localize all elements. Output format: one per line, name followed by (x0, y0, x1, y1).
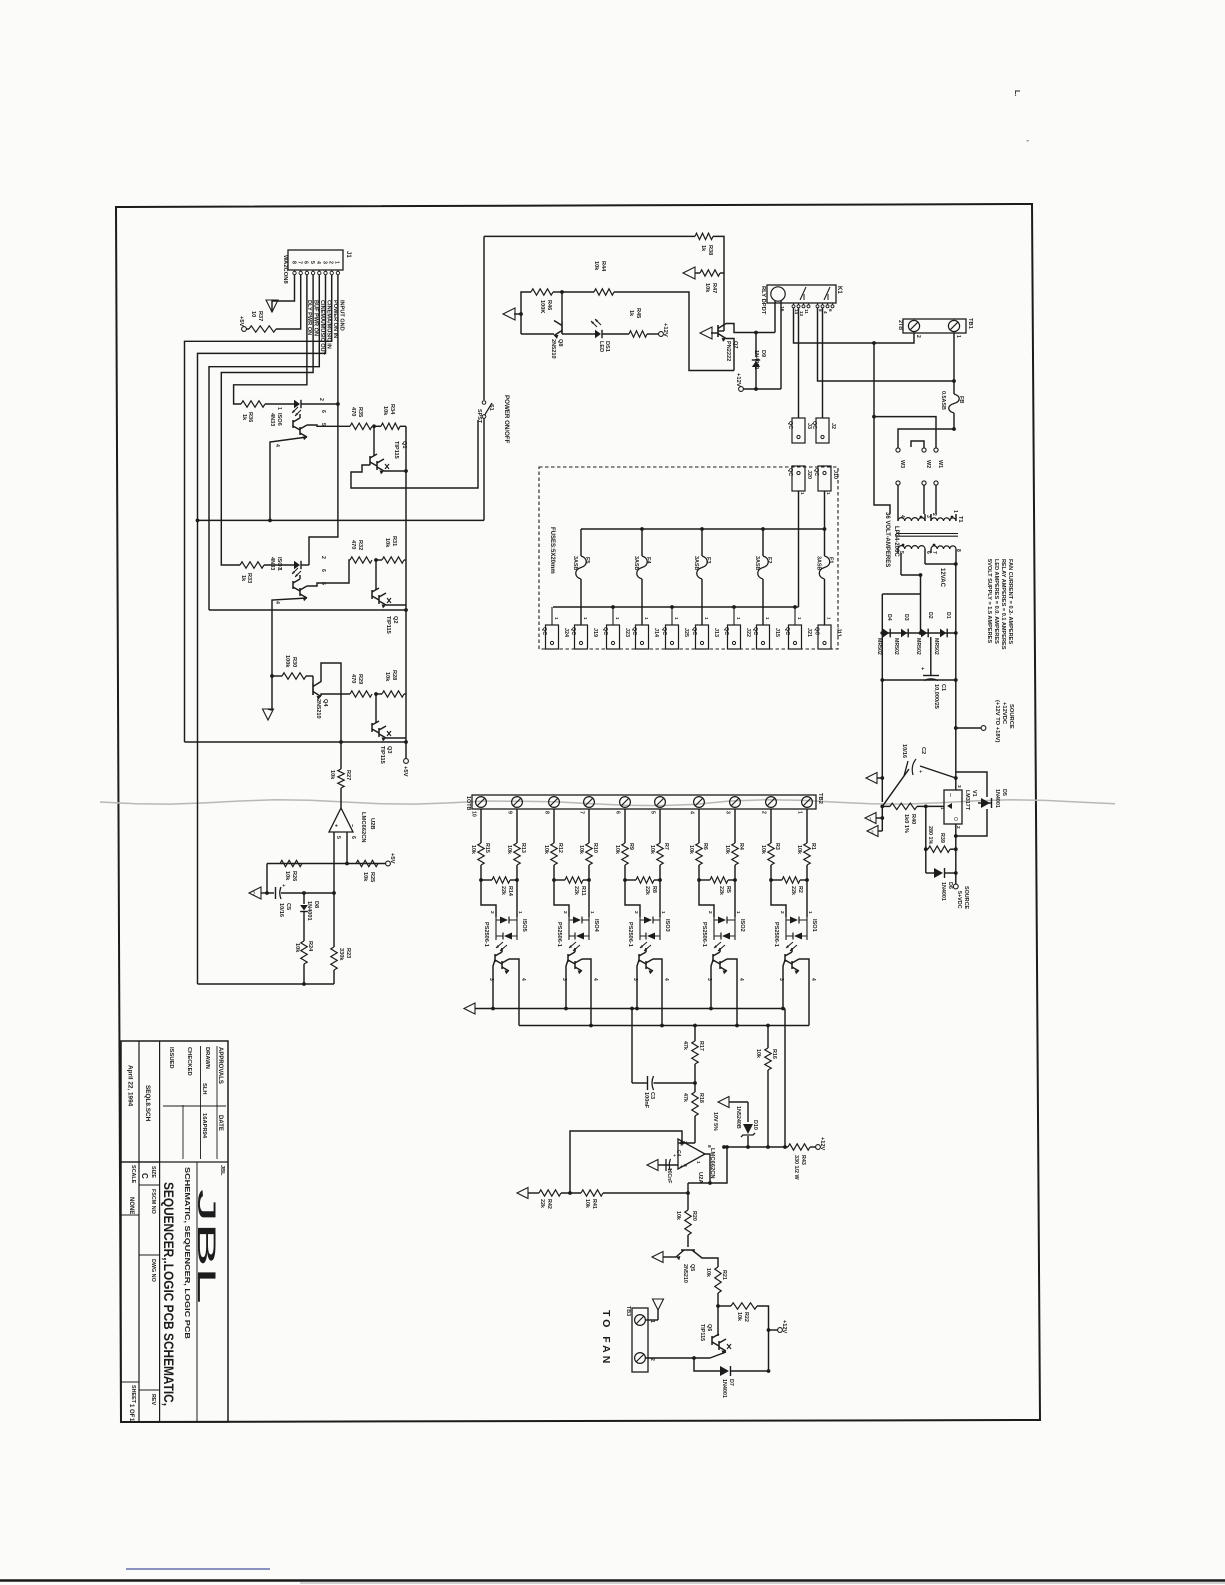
faint specks top right (1013, 90, 1028, 142)
wire Q7 collector (726, 324, 775, 335)
svg-text:5: 5 (335, 836, 341, 839)
svg-text:1: 1 (955, 335, 961, 338)
svg-text:6: 6 (925, 551, 931, 554)
svg-text:10k: 10k (688, 845, 694, 854)
wire collector bus (519, 1024, 809, 1028)
resistor R39 (924, 806, 956, 873)
wire Q1 collector loop to S1 (351, 420, 478, 488)
wire U2A output (688, 1145, 729, 1185)
transistor Q3 (372, 694, 392, 764)
svg-text:16: 16 (779, 306, 785, 312)
resistor R42 (539, 1190, 581, 1209)
svg-text:100K: 100K (539, 300, 545, 313)
svg-text:10k: 10k (736, 1312, 742, 1321)
connector J21 (784, 607, 812, 649)
wire Q3 emitter (386, 738, 408, 744)
svg-text:10k: 10k (704, 283, 710, 293)
svg-text:V1: V1 (971, 790, 977, 797)
svg-text:R40: R40 (910, 814, 916, 824)
svg-text:4: 4 (810, 978, 816, 981)
svg-text:R10: R10 (592, 843, 598, 853)
svg-text:+12V: +12V (781, 1320, 787, 1333)
svg-text:1 OF: 1 OF (128, 1404, 134, 1418)
svg-text:+: + (917, 770, 923, 773)
svg-text:C3: C3 (649, 1092, 655, 1099)
svg-text:J25: J25 (683, 628, 689, 637)
svg-text:6: 6 (615, 811, 621, 814)
scan artifact gray streak (100, 800, 1115, 806)
svg-text:3: 3 (632, 978, 638, 981)
svg-text:TIP115: TIP115 (379, 746, 385, 764)
svg-text:R3: R3 (774, 843, 780, 850)
svg-text:1: 1 (799, 492, 805, 495)
wire C3 feed (630, 1007, 634, 1083)
svg-text:1k: 1k (628, 310, 634, 317)
svg-text:Q6: Q6 (706, 1324, 712, 1331)
svg-text:R38: R38 (707, 245, 713, 255)
resistor R2 (769, 877, 809, 895)
svg-text:100k: 100k (284, 655, 290, 668)
svg-text:10k: 10k (724, 845, 730, 854)
svg-text:QC: QC (691, 627, 697, 635)
wire R41 to R20 (687, 1183, 689, 1210)
svg-text:U2B: U2B (369, 818, 375, 830)
svg-text:ISO4: ISO4 (593, 919, 599, 933)
wire Q1 emitter to +5 rail (384, 469, 408, 473)
svg-text:6: 6 (320, 410, 326, 413)
svg-text:SOURCE: SOURCE (963, 886, 969, 909)
+12V terminal node (735, 373, 781, 391)
svg-text:9: 9 (507, 811, 513, 814)
svg-text:QC: QC (661, 627, 667, 635)
svg-text:22k: 22k (539, 1199, 545, 1208)
svg-text:1N4001: 1N4001 (721, 1379, 727, 1398)
wire Q4 collector to R27 node (321, 663, 341, 742)
wire Q7 emitter (726, 339, 734, 371)
svg-text:2: 2 (871, 830, 874, 835)
svg-text:FB: FB (958, 396, 964, 403)
resistor R27 (329, 742, 351, 808)
svg-text:1: 1 (939, 807, 945, 810)
svg-text:2TB: 2TB (897, 320, 903, 330)
svg-text:Q3: Q3 (386, 746, 392, 753)
svg-text:1N4001: 1N4001 (940, 882, 946, 901)
svg-text:1: 1 (644, 617, 649, 620)
svg-text:10k: 10k (796, 845, 802, 854)
diode D2 (915, 612, 933, 655)
svg-text:FAN CURRENT = 0.2- AMPERES: FAN CURRENT = 0.2- AMPERES (1007, 559, 1013, 644)
resistor R18 (682, 1083, 704, 1143)
svg-text:R20: R20 (691, 1211, 697, 1221)
svg-text:22k: 22k (500, 886, 506, 895)
label 36 VOLT-AMPERES (884, 512, 890, 567)
svg-text:R15: R15 (484, 843, 490, 853)
wire long rail y610 (209, 609, 406, 611)
svg-text:36 VOLT-AMPERES: 36 VOLT-AMPERES (884, 512, 890, 567)
svg-text:R45: R45 (635, 308, 641, 318)
svg-text:LMC662CN: LMC662CN (360, 812, 366, 843)
ground flag U2A (647, 1160, 660, 1171)
svg-text:6: 6 (828, 309, 833, 312)
wire R47 node to Q7 base (718, 273, 724, 331)
svg-text:+5V: +5V (402, 766, 408, 777)
svg-text:R36: R36 (247, 412, 253, 422)
optocoupler ISO2 LED pair (699, 880, 745, 951)
svg-text:MR502: MR502 (876, 638, 882, 655)
svg-text:C1: C1 (940, 684, 946, 691)
optocoupler ISO5 phototransistor (488, 948, 526, 1026)
svg-text:S1: S1 (488, 404, 494, 411)
node R35-R34 junction (372, 424, 376, 428)
svg-text:J1: J1 (345, 251, 351, 258)
svg-text:5: 5 (650, 811, 656, 814)
op-amp U2B (329, 808, 375, 843)
svg-text:3ASB: 3ASB (693, 556, 699, 570)
svg-text:D1: D1 (945, 612, 951, 619)
svg-text:10k: 10k (543, 845, 549, 854)
resistor R22 (718, 1303, 770, 1373)
svg-text:SOURCE: SOURCE (1008, 704, 1014, 729)
svg-text:22k: 22k (718, 886, 724, 895)
svg-text:3: 3 (321, 261, 327, 264)
svg-text:+12V: +12V (735, 373, 741, 387)
capacitor C3 (632, 1076, 695, 1109)
resistor R45 (602, 308, 659, 337)
wire secondary pin8 (925, 553, 958, 566)
svg-text:SPST: SPST (476, 409, 482, 424)
wire relay contact to TB1-1 (818, 308, 956, 383)
op-amp U2A (678, 1139, 715, 1184)
optocoupler ISO4 phototransistor (561, 948, 598, 1026)
transformer T1 secondary (898, 544, 961, 554)
svg-text:470: 470 (350, 407, 356, 416)
svg-text:R44: R44 (600, 261, 606, 272)
svg-text:10k: 10k (675, 1211, 681, 1220)
connector J25 (661, 607, 689, 649)
svg-text:D7: D7 (728, 1379, 734, 1386)
optocoupler ISO7 phototransistor (274, 569, 326, 604)
svg-text:APPROVALS: APPROVALS (217, 1047, 223, 1084)
svg-text:10CnF: 10CnF (666, 1168, 672, 1183)
svg-text:2N5210: 2N5210 (550, 339, 556, 359)
diode D5 (954, 772, 1007, 838)
svg-text:1k: 1k (240, 575, 246, 582)
svg-text:R9: R9 (628, 843, 634, 850)
ground flag bus top (866, 773, 884, 784)
transistor Q6 (699, 1306, 731, 1354)
capacitor C4 (666, 1150, 681, 1183)
svg-text:2: 2 (562, 911, 568, 914)
svg-text:TIP115: TIP115 (393, 441, 399, 459)
+5V terminal for R37 (238, 316, 246, 331)
svg-text:QC: QC (787, 421, 793, 429)
svg-text:J21: J21 (806, 628, 812, 637)
svg-text:LM317T: LM317T (964, 790, 970, 811)
svg-text:1: 1 (660, 911, 666, 914)
resistor R14 (479, 877, 519, 896)
svg-text:10k: 10k (284, 871, 290, 881)
svg-text:DWG NO: DWG NO (150, 1259, 156, 1282)
wire emitter bus drop to +12 node (784, 1009, 786, 1148)
node R29-R28 junction (374, 692, 378, 696)
svg-text:R42: R42 (546, 1199, 552, 1209)
svg-text:PS2506-1: PS2506-1 (773, 922, 779, 947)
svg-text:4: 4 (274, 444, 280, 447)
resistor R12 (543, 809, 563, 880)
connector J22 (723, 607, 751, 649)
svg-text:LP24-200C: LP24-200C (893, 526, 899, 557)
svg-text:47k: 47k (682, 1093, 688, 1102)
connector J10 (813, 466, 838, 495)
svg-text:ISO2: ISO2 (739, 919, 745, 932)
svg-text:INPUT GND: INPUT GND (339, 300, 345, 331)
wire relay contact to J3 (798, 308, 800, 418)
svg-text:1: 1 (276, 407, 282, 410)
svg-text:J14: J14 (653, 628, 659, 637)
svg-text:RELAY AMPERES = 0.1 AMPERES: RELAY AMPERES = 0.1 AMPERES (1000, 559, 1006, 650)
svg-text:1: 1 (797, 617, 802, 620)
svg-text:SEQL8.SCH: SEQL8.SCH (144, 1085, 151, 1122)
svg-text:D8: D8 (313, 901, 319, 908)
diode D6 (926, 868, 956, 901)
svg-text:280 1%: 280 1% (927, 826, 933, 844)
ground flag 1 (865, 813, 884, 824)
optocoupler ISO4 LED pair (554, 880, 599, 951)
svg-text:PS2506-1: PS2506-1 (701, 922, 707, 947)
wire bridge row (880, 631, 957, 635)
resistor R47 (695, 270, 724, 293)
wire top rail y236 (484, 235, 695, 237)
svg-text:2: 2 (649, 1358, 655, 1361)
resistor R43 (788, 1144, 816, 1181)
svg-text:+: + (333, 824, 339, 827)
svg-text:PS2506-1: PS2506-1 (556, 922, 562, 947)
svg-text:1: 1 (554, 617, 559, 620)
ground flag R42 (517, 1188, 539, 1199)
wire long rail y742 (185, 740, 407, 744)
wire U2A minus input (678, 1141, 695, 1145)
resistor R3 (760, 809, 780, 880)
svg-text:C4: C4 (675, 1150, 681, 1157)
svg-text:D6: D6 (947, 882, 953, 889)
svg-text:5: 5 (320, 423, 326, 426)
svg-text:0.5ASB: 0.5ASB (940, 391, 946, 410)
drawing border frame (116, 204, 1040, 1422)
optocoupler ISO7 LED (264, 556, 326, 577)
svg-text:1k0 1%: 1k0 1% (903, 814, 909, 833)
svg-text:16APR94: 16APR94 (201, 1113, 207, 1139)
svg-text:POWER ON/OFF: POWER ON/OFF (503, 395, 510, 444)
SOURCE +5V terminal (953, 884, 969, 909)
J1 pin name labels (306, 300, 345, 356)
resistor R8 (623, 877, 662, 895)
svg-text:D3: D3 (903, 614, 909, 621)
svg-text:MR502: MR502 (933, 638, 939, 655)
svg-text:10V 5%: 10V 5% (712, 1112, 718, 1131)
svg-text:J11: J11 (836, 628, 842, 637)
svg-text:10k: 10k (760, 845, 766, 854)
svg-text:QC: QC (541, 627, 547, 635)
wire long vertical from relay node (872, 343, 890, 514)
wire main +12 vertical (954, 564, 958, 790)
svg-text:+12VDC: +12VDC (1001, 702, 1007, 725)
svg-text:4: 4 (520, 978, 526, 981)
svg-text:1: 1 (827, 617, 832, 620)
svg-text:R35: R35 (357, 407, 363, 417)
svg-text:3: 3 (925, 515, 931, 518)
svg-text:1: 1 (797, 811, 803, 814)
svg-text:R2: R2 (797, 886, 803, 893)
wire bundle J1 pin 5 (221, 275, 313, 565)
svg-text:SEQUENCER,.LOGIC PCB SCHEMATIC: SEQUENCER,.LOGIC PCB SCHEMATIC, (161, 1182, 177, 1406)
wire bundle J1 pin 4 (209, 275, 319, 610)
svg-text:470: 470 (350, 674, 356, 683)
wire secondary center tap (901, 553, 922, 577)
svg-text:10k: 10k (649, 845, 655, 854)
svg-text:4: 4 (899, 515, 905, 518)
relay K1 (760, 285, 842, 317)
note text current table (986, 559, 1013, 650)
svg-text:1: 1 (869, 817, 872, 822)
svg-text:1: 1 (825, 492, 831, 495)
resistor R24 (294, 941, 313, 986)
resistor R20 (675, 1210, 697, 1247)
svg-text:10k: 10k (470, 845, 476, 854)
svg-text:4: 4 (738, 978, 744, 981)
svg-text:10k: 10k (329, 770, 335, 780)
ground flag R47 (683, 267, 695, 279)
resistor R4 (724, 809, 744, 880)
optocoupler ISO6 phototransistor (274, 410, 326, 447)
svg-text:J2: J2 (830, 423, 836, 429)
svg-text:10/16: 10/16 (278, 903, 284, 917)
svg-text:MR502: MR502 (893, 638, 899, 655)
svg-text:C5: C5 (285, 903, 291, 910)
resistor R33 (240, 562, 264, 583)
svg-text:R46: R46 (546, 300, 552, 310)
wire ISO7 pin4 to ground flag (270, 598, 307, 710)
wire W3 feed (898, 429, 954, 448)
label LP24-200C (893, 526, 899, 557)
connector J20 (787, 466, 812, 495)
wire bundle J1 pin 6 (234, 275, 307, 404)
svg-text:3: 3 (706, 978, 712, 981)
optocoupler ISO1 phototransistor (778, 948, 816, 1026)
wire emitter bus (477, 1007, 785, 1011)
svg-text:QC: QC (602, 627, 608, 635)
svg-text:LED AMPERES = 0.0. AMPERES: LED AMPERES = 0.0. AMPERES (993, 559, 999, 644)
terminal block TB1 (897, 318, 973, 338)
svg-text:10k: 10k (506, 845, 512, 854)
svg-text:+5V: +5V (389, 853, 395, 864)
resistor R1 (796, 809, 816, 880)
ground flag Q7 (700, 327, 718, 339)
svg-text:SHEET: SHEET (130, 1385, 136, 1404)
diode D4 (876, 614, 892, 655)
svg-text:I: I (950, 793, 951, 799)
ground flag D10 (718, 1097, 748, 1108)
svg-text:TIP115: TIP115 (385, 616, 391, 634)
svg-text:6: 6 (320, 569, 326, 572)
svg-text:TO FAN: TO FAN (600, 1310, 612, 1366)
SOURCE +12V terminal (956, 700, 1014, 742)
resistor R31 (376, 536, 406, 563)
svg-text:TB2: TB2 (817, 793, 823, 804)
optocoupler ISO1 LED pair (771, 880, 817, 951)
resistor R38 (695, 233, 724, 273)
svg-text:2: 2 (931, 513, 937, 516)
resistor R16 (755, 1026, 777, 1149)
svg-text:QC: QC (752, 627, 758, 635)
svg-text:Q5: Q5 (689, 1264, 695, 1271)
svg-text:F3: F3 (705, 557, 711, 564)
svg-text:4: 4 (823, 311, 828, 314)
resistor R9 (614, 809, 634, 880)
svg-text:R24: R24 (307, 941, 313, 952)
jumper W3 (896, 448, 905, 514)
svg-text:10k: 10k (294, 943, 300, 953)
wire U2A feedback (568, 1131, 682, 1195)
wire fuse lower bus (553, 605, 799, 609)
svg-text:R32: R32 (357, 540, 363, 550)
svg-text:T1: T1 (957, 516, 963, 523)
resistor R28 (376, 670, 406, 697)
svg-text:10k: 10k (362, 872, 368, 882)
svg-text:2: 2 (633, 911, 639, 914)
svg-text:K1: K1 (836, 286, 842, 294)
svg-text:W3: W3 (899, 460, 905, 468)
svg-text:MR502: MR502 (915, 638, 921, 655)
svg-text:TIP115: TIP115 (699, 1324, 705, 1341)
wire J20 drop (798, 491, 800, 607)
svg-text:10k: 10k (382, 406, 388, 416)
+12V terminal R45 (659, 323, 668, 337)
LED DS1 (562, 319, 610, 352)
resistor R21 (705, 1267, 727, 1308)
svg-text:R28: R28 (391, 670, 397, 680)
svg-text:7: 7 (297, 261, 303, 264)
svg-text:R39: R39 (939, 833, 945, 843)
svg-text:PN2222: PN2222 (725, 341, 731, 361)
svg-text:POWER ON IN: POWER ON IN (332, 300, 338, 338)
svg-text:3: 3 (561, 978, 567, 981)
wire relay coil pin16 (774, 301, 776, 333)
transistor Q8 (521, 292, 563, 359)
resistor R40 (880, 803, 944, 833)
fuse F5 (572, 529, 590, 625)
svg-text:2: 2 (707, 911, 713, 914)
svg-text:1N4001: 1N4001 (306, 901, 312, 921)
svg-text:2: 2 (328, 261, 334, 264)
svg-text:FSCM NO: FSCM NO (150, 1189, 156, 1214)
svg-text:SLH: SLH (201, 1083, 207, 1095)
svg-text:R21: R21 (721, 1270, 727, 1280)
svg-text:TB1: TB1 (967, 318, 973, 330)
svg-text:ISSUED: ISSUED (168, 1047, 174, 1069)
fuse FB (940, 391, 964, 431)
svg-text:6: 6 (350, 836, 356, 839)
svg-text:J20: J20 (806, 470, 812, 479)
svg-text:10k: 10k (593, 261, 599, 271)
capacitor C5 (261, 884, 334, 917)
svg-text:2: 2 (320, 556, 326, 559)
resistor R15 (470, 809, 490, 880)
resistor R46 (521, 289, 562, 334)
blue pen mark (126, 1568, 270, 1570)
ground flag sequencer bus (464, 1003, 477, 1014)
transistor Q4 (313, 676, 328, 719)
wire TB1-1 down (953, 333, 955, 394)
